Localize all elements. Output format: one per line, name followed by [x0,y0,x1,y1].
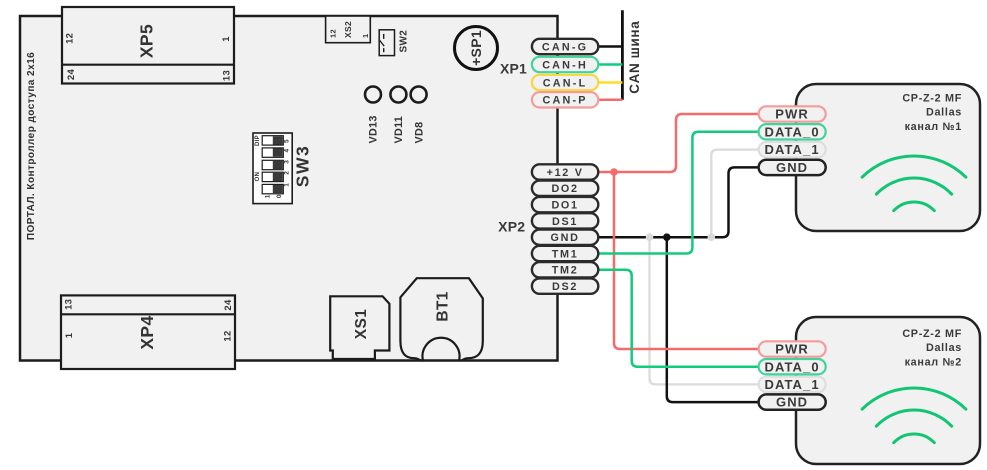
svg-text:1: 1 [64,332,75,338]
svg-text:CAN шина: CAN шина [627,21,642,94]
svg-text:DO2: DO2 [551,183,578,195]
svg-text:DIP: DIP [255,135,261,146]
svg-text:DS2: DS2 [552,281,578,293]
svg-text:12: 12 [223,330,234,341]
svg-text:XP5: XP5 [137,24,157,58]
svg-text:PWR: PWR [775,107,809,122]
svg-text:DATA_1: DATA_1 [764,142,819,157]
svg-text:DS1: DS1 [552,216,578,228]
svg-text:13: 13 [63,299,74,310]
svg-text:1: 1 [284,183,291,187]
svg-text:VD13: VD13 [368,115,380,143]
svg-text:DATA_1: DATA_1 [764,377,819,392]
svg-text:TM1: TM1 [552,248,579,260]
svg-text:ПОРТАЛ. Контроллер доступа 2x1: ПОРТАЛ. Контроллер доступа 2x16 [26,52,37,240]
svg-text:4: 4 [284,148,291,152]
svg-text:+SP1: +SP1 [468,30,484,66]
svg-text:DO1: DO1 [551,200,578,212]
svg-text:GND: GND [551,232,580,244]
svg-text:XP2: XP2 [498,219,525,235]
svg-text:13: 13 [221,70,232,81]
svg-text:GND: GND [776,160,808,175]
svg-text:2: 2 [284,171,291,175]
svg-text:CAN-L: CAN-L [543,77,588,89]
svg-text:CP-Z-2 MF: CP-Z-2 MF [902,328,962,340]
svg-text:XS2: XS2 [343,21,353,38]
svg-text:0: 0 [276,194,283,198]
svg-text:1: 1 [265,194,272,198]
svg-text:VD11: VD11 [393,116,405,144]
svg-text:XS1: XS1 [353,309,370,340]
svg-text:TM2: TM2 [552,265,579,277]
svg-text:Dallas: Dallas [926,107,962,119]
svg-text:CAN-H: CAN-H [542,59,588,71]
svg-text:канал №1: канал №1 [905,121,962,133]
svg-text:1: 1 [361,34,370,38]
svg-text:12: 12 [328,29,337,38]
svg-text:ON: ON [255,172,261,182]
svg-text:VD8: VD8 [414,122,426,144]
svg-text:DATA_0: DATA_0 [764,124,819,139]
svg-text:XP4: XP4 [137,315,157,349]
svg-text:DATA_0: DATA_0 [764,359,819,374]
svg-text:24: 24 [223,299,234,311]
svg-text:CAN-G: CAN-G [542,41,588,53]
svg-text:5: 5 [284,139,291,143]
svg-text:SW2: SW2 [399,30,410,53]
svg-text:24: 24 [66,69,77,81]
svg-text:12: 12 [64,33,75,44]
svg-text:+12 V: +12 V [547,167,584,179]
svg-text:GND: GND [776,395,808,410]
svg-text:CAN-P: CAN-P [542,95,587,107]
svg-text:XP1: XP1 [500,61,527,77]
svg-text:1: 1 [221,36,232,42]
svg-text:Dallas: Dallas [926,342,962,354]
svg-text:PWR: PWR [775,342,809,357]
svg-text:SW3: SW3 [293,145,313,187]
svg-text:3: 3 [284,160,291,164]
svg-text:канал №2: канал №2 [905,356,962,368]
svg-text:BT1: BT1 [434,291,451,321]
svg-text:CP-Z-2 MF: CP-Z-2 MF [902,93,962,105]
